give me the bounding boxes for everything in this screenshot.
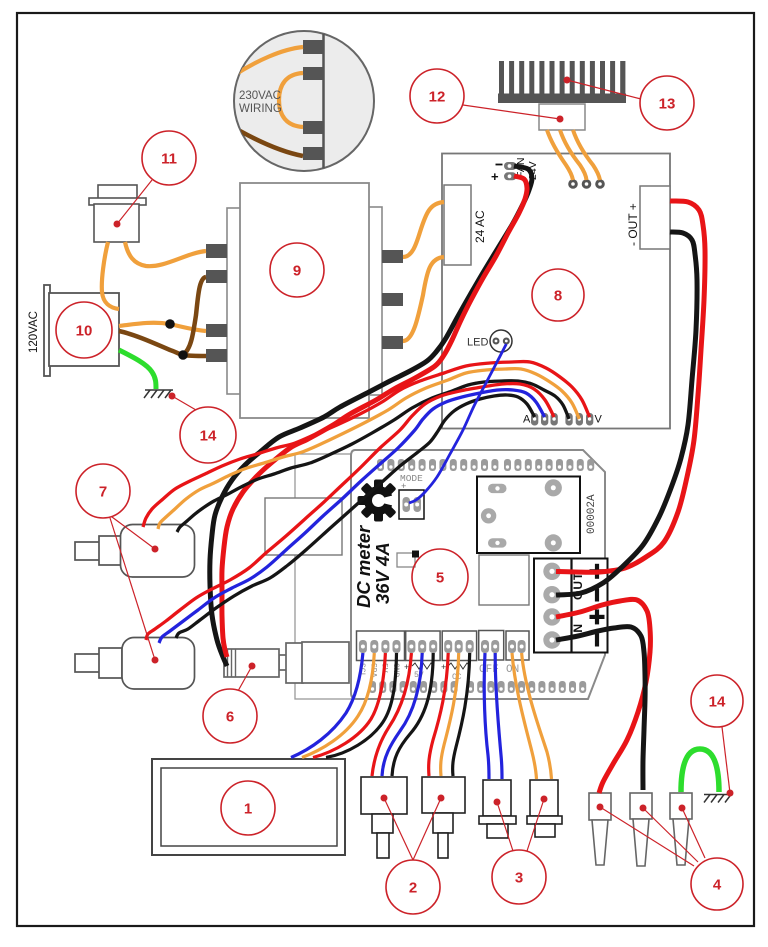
wire: OUT red board8 to IN/OUT block [556, 201, 705, 572]
wire: orange transformer tab R1 to 24AC [403, 202, 444, 257]
svg-text:120VAC: 120VAC [28, 311, 40, 353]
svg-text:3: 3 [515, 870, 523, 887]
wire: red TB-C to button 2b [429, 653, 449, 776]
A/V sense pads [531, 413, 538, 426]
svg-text:6: 6 [226, 709, 234, 726]
wire: blue TB-B to button 2a [382, 653, 422, 776]
svg-text:5: 5 [436, 570, 444, 587]
wire: orange transformer tab R3 to 24AC [403, 257, 444, 341]
wire: black TB-B to button 2a [392, 653, 433, 776]
svg-text:2: 2 [409, 880, 417, 897]
svg-text:WIRING: WIRING [239, 103, 282, 115]
bubble orange wire to tab1 [233, 47, 303, 76]
transformer right tabs [382, 250, 403, 349]
spade terminal 4a [589, 793, 611, 865]
svg-text:230VAC: 230VAC [239, 90, 281, 102]
transformer T9 [227, 183, 382, 418]
spade terminal 4b [630, 793, 652, 866]
power supply board PS8 [442, 154, 670, 429]
svg-text:9: 9 [293, 263, 301, 280]
wire: black bundle A pad V to switch 7a [177, 381, 569, 532]
heatsink wire pads [568, 179, 578, 189]
svg-text:1: 1 [244, 801, 252, 818]
wire: FAN black to barrel jack [210, 166, 532, 666]
LCD display 1 [152, 759, 345, 855]
ground symbol right [704, 795, 733, 803]
svg-text:8: 8 [554, 288, 562, 305]
wire: blue TB-A to LCD [291, 653, 363, 758]
wire: IN- black to spade 4b [556, 627, 645, 790]
svg-text:V: V [595, 414, 603, 426]
svg-text:10: 10 [76, 323, 93, 340]
wire: orange TB-E to jack 3b [512, 653, 537, 779]
svg-text:14: 14 [709, 694, 726, 711]
wire: brown junction to tab4 [183, 355, 206, 356]
LED pads [490, 330, 512, 352]
junction node orange [165, 319, 175, 329]
banana jack 3b [527, 780, 562, 837]
toggle switch 7a [75, 525, 195, 578]
wire: red TB-A to LCD [313, 653, 385, 758]
wire: blue LED to MODE pad [409, 344, 506, 503]
wire: orange bundle A pad V to switch 7a [158, 369, 579, 529]
wire: blue bundle B pad A to switch 7b [159, 390, 545, 643]
callout 8 [532, 269, 584, 321]
terminal block TB-C (CC) [442, 631, 476, 661]
thermal switch 12 [539, 104, 585, 130]
bubble tab 2 [303, 67, 324, 80]
callout 10 [56, 302, 112, 358]
wire: orange fuse holder to transformer tab1 [125, 242, 206, 266]
callout 14 right with leader [722, 727, 730, 793]
callout 4 with leaders [600, 807, 694, 866]
IN/OUT terminal block [534, 559, 608, 653]
wire: green socket to ground [119, 350, 156, 389]
svg-text:+: + [491, 169, 499, 184]
bubble orange loop tab2-tab3 [279, 73, 303, 127]
push button 2a [361, 777, 407, 858]
svg-text:14: 14 [200, 428, 217, 445]
wire: red bundle B pad A to switch 7b [146, 384, 554, 640]
wire: brown socket to junction [119, 331, 183, 355]
callout 5 [412, 549, 468, 605]
heatsink HS13 [498, 61, 626, 103]
backing plate behind meter board [295, 454, 495, 699]
shunt resistor [397, 553, 415, 567]
ground symbol left [144, 390, 173, 398]
24AC connector [444, 185, 471, 265]
svg-text:24 AC: 24 AC [473, 210, 487, 243]
terminal block TB-A (LCD) [357, 631, 405, 661]
230VAC detail bubble [233, 31, 374, 171]
FAN pin pads [504, 162, 517, 170]
wire: brown junction up to tab2 [183, 277, 206, 355]
wire: green jumper spade 4c to ground [681, 749, 719, 792]
socket 10 [44, 285, 119, 376]
svg-text:00002A: 00002A [586, 494, 598, 534]
wire: orange TB-E to jack 3b [522, 653, 552, 779]
svg-text:A: A [523, 414, 531, 426]
svg-text:11: 11 [161, 151, 177, 168]
capacitor box [479, 555, 529, 605]
wire: black TB-C to button 2b [453, 653, 470, 776]
barrel connector 6 [224, 642, 349, 683]
svg-text:- OUT +: - OUT + [626, 203, 640, 246]
callout 7 with leaders [112, 517, 155, 549]
spade terminal 4c [670, 793, 692, 865]
fuse holder 11 [89, 185, 146, 242]
junction node brown [178, 350, 188, 360]
callout 14 left with leader [172, 396, 196, 410]
polarity marks [590, 564, 605, 647]
wire: red TB-B to button 2a [372, 653, 411, 776]
svg-text:12: 12 [429, 89, 446, 106]
bubble tab 4 [303, 147, 324, 160]
svg-text:LED: LED [467, 337, 488, 349]
top pin header row [377, 459, 594, 471]
wire: black bundle B pad A to switch 7b [176, 395, 535, 638]
svg-text:4: 4 [713, 877, 722, 894]
terminal block TB-E (ON) [506, 631, 529, 660]
gear logo [349, 471, 408, 530]
wire: orange TB-A to LCD [302, 653, 374, 758]
white box (rectifier module) [265, 498, 342, 555]
bubble tab 3 [303, 121, 324, 134]
banana jack 3a [479, 780, 516, 838]
wire: blue TB-D to jack 3a [495, 653, 502, 779]
wire: black TB-A to LCD [326, 653, 397, 758]
terminal block TB-D (OFF) [479, 631, 504, 661]
wire: orange fuse holder to socket 10 [102, 242, 119, 309]
bottom pin header row [369, 681, 586, 693]
transformer left tabs [206, 244, 227, 362]
callout 12 with leader [463, 105, 560, 119]
callout 11 with leader [117, 180, 152, 224]
callout 13 with leader [567, 80, 641, 99]
DC meter shield board U5 [351, 450, 605, 699]
wire: orange thermal switch to board pads x3 [547, 130, 573, 180]
callout 6 with leader [238, 666, 252, 691]
toggle switch 7b [75, 638, 195, 690]
callout 9 [270, 243, 324, 297]
callout 3 with leaders [497, 802, 513, 851]
svg-text:36V 4A: 36V 4A [372, 542, 393, 604]
wire: blue TB-D to jack 3a [484, 653, 489, 779]
wire: OUT black board8 to IN/OUT block [556, 232, 697, 595]
bubble tab 1 [303, 40, 324, 54]
svg-text:7: 7 [99, 484, 107, 501]
callout 2 with leaders [384, 798, 413, 860]
OUT connector [640, 186, 670, 249]
terminal block TB-B (5V) [406, 631, 440, 661]
wire: IN+ red to spade 4a [556, 599, 650, 793]
wire: red bundle A pad V to switch 7a [143, 362, 590, 527]
wire: orange socket to junction to tab3 [119, 323, 206, 331]
svg-text:DC meter: DC meter [353, 524, 374, 608]
wire: FAN red to barrel jack [222, 176, 527, 657]
relay K1 [477, 477, 580, 554]
callout 1 [221, 781, 275, 835]
push button 2b [422, 777, 465, 858]
bubble brown wire to tab4 [240, 131, 303, 156]
svg-text:13: 13 [659, 96, 676, 113]
wire: orange TB-C to button 2b [441, 653, 459, 776]
